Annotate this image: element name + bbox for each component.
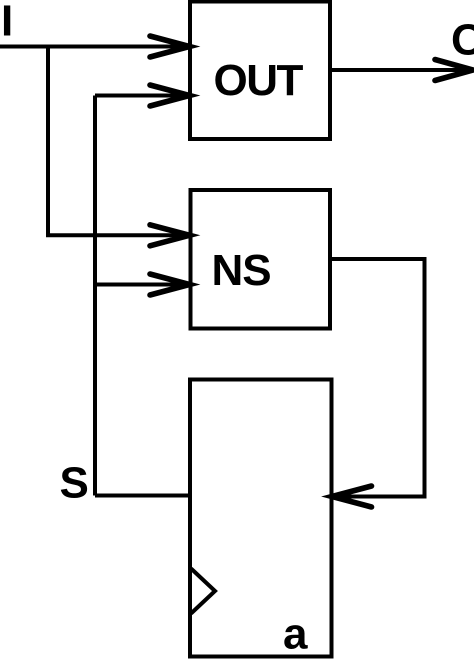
arrowhead at O output [435,60,473,81]
wire S up to OUT [95,94,188,98]
svg-text:I: I [1,0,13,45]
block NS (next-state logic) [191,190,331,329]
svg-text:OUT: OUT [214,56,304,105]
wire S to NS [95,283,188,287]
arrowhead into OUT bottom input [150,85,190,106]
wire S feedback vertical [93,96,97,496]
arrowhead into NS top input [150,225,190,246]
svg-text:O: O [451,16,474,65]
svg-text:a: a [283,610,308,659]
block a (state register) [190,380,332,659]
block OUT (output logic) [190,2,330,140]
arrowhead into register right side [332,486,372,507]
svg-text:S: S [60,458,89,507]
arrowhead into OUT top input [150,36,190,57]
wire I input to OUT [0,45,188,49]
svg-text:NS: NS [212,246,271,295]
wire S into register [95,494,191,498]
wire OUT to O output [330,68,471,72]
wire NS output feedback to register [330,259,425,497]
clock triangle on register [191,569,215,614]
arrowhead into NS bottom input [150,274,190,295]
wire I branch down to NS [48,47,188,236]
